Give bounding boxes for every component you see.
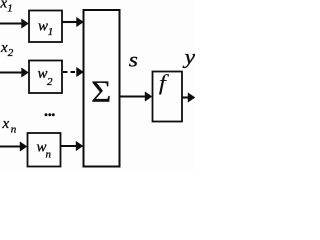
svg-text:2: 2: [8, 47, 14, 59]
svg-text:1: 1: [48, 26, 54, 38]
svg-text:x: x: [2, 116, 10, 132]
svg-text:y: y: [182, 46, 195, 68]
svg-text:w: w: [38, 66, 48, 82]
svg-text:1: 1: [7, 3, 13, 15]
svg-text:n: n: [11, 124, 17, 136]
svg-text:n: n: [46, 149, 52, 161]
svg-text:s: s: [129, 48, 138, 72]
svg-text:2: 2: [47, 76, 53, 88]
svg-text:w: w: [38, 19, 48, 35]
svg-text:Σ: Σ: [91, 75, 111, 109]
